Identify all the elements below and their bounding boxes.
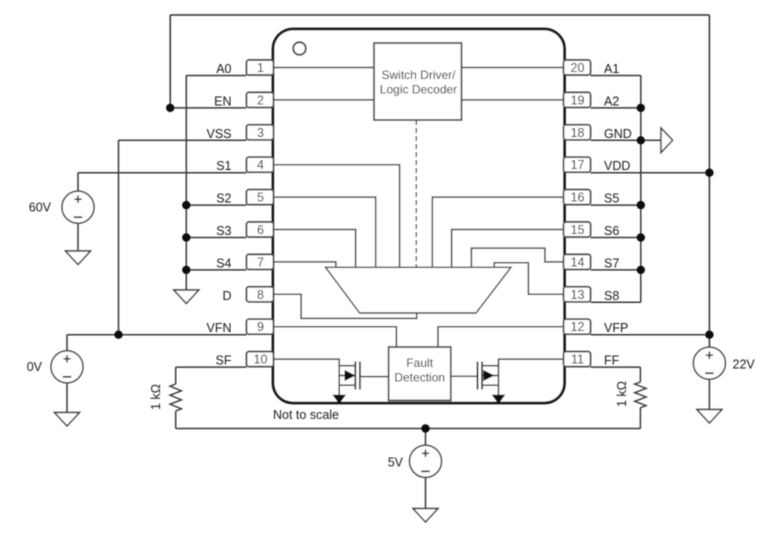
svg-text:Not to scale: Not to scale xyxy=(273,408,339,422)
svg-text:Logic Decoder: Logic Decoder xyxy=(380,83,457,97)
svg-text:1 kΩ: 1 kΩ xyxy=(149,384,163,410)
svg-text:Fault: Fault xyxy=(406,356,433,370)
svg-text:8: 8 xyxy=(257,288,264,302)
svg-text:0V: 0V xyxy=(27,360,43,374)
svg-text:SF: SF xyxy=(216,354,232,368)
svg-text:60V: 60V xyxy=(29,201,52,215)
svg-text:S4: S4 xyxy=(216,256,231,270)
svg-text:15: 15 xyxy=(571,223,585,237)
svg-text:5: 5 xyxy=(257,191,264,205)
svg-text:VFN: VFN xyxy=(207,321,232,335)
svg-text:S2: S2 xyxy=(216,192,231,206)
svg-text:1: 1 xyxy=(257,61,264,75)
svg-text:FF: FF xyxy=(604,354,620,368)
svg-text:GND: GND xyxy=(604,127,632,141)
svg-text:13: 13 xyxy=(571,288,585,302)
svg-text:S1: S1 xyxy=(216,159,231,173)
svg-text:S5: S5 xyxy=(604,192,619,206)
svg-text:17: 17 xyxy=(571,158,585,172)
svg-text:19: 19 xyxy=(571,93,585,107)
svg-text:EN: EN xyxy=(214,94,231,108)
svg-text:11: 11 xyxy=(571,353,584,367)
svg-text:3: 3 xyxy=(257,126,264,140)
svg-text:16: 16 xyxy=(571,191,585,205)
svg-text:1 kΩ: 1 kΩ xyxy=(615,381,629,407)
svg-text:20: 20 xyxy=(571,61,585,75)
svg-text:6: 6 xyxy=(257,223,264,237)
svg-text:A2: A2 xyxy=(604,94,619,108)
svg-text:S8: S8 xyxy=(604,289,619,303)
svg-text:5V: 5V xyxy=(388,456,404,470)
svg-text:18: 18 xyxy=(571,126,585,140)
svg-text:VSS: VSS xyxy=(206,127,231,141)
svg-text:VFP: VFP xyxy=(604,321,628,335)
svg-text:10: 10 xyxy=(254,353,268,367)
svg-text:7: 7 xyxy=(257,255,264,269)
svg-text:14: 14 xyxy=(571,255,585,269)
svg-text:S7: S7 xyxy=(604,256,619,270)
svg-text:S3: S3 xyxy=(216,224,231,238)
svg-text:2: 2 xyxy=(257,93,264,107)
svg-text:4: 4 xyxy=(257,158,264,172)
svg-text:S6: S6 xyxy=(604,224,619,238)
svg-text:VDD: VDD xyxy=(604,159,630,173)
svg-text:A0: A0 xyxy=(216,62,231,76)
svg-text:22V: 22V xyxy=(733,358,756,372)
svg-text:A1: A1 xyxy=(604,62,619,76)
svg-text:D: D xyxy=(222,289,231,303)
svg-text:Switch Driver/: Switch Driver/ xyxy=(381,68,456,82)
svg-text:9: 9 xyxy=(257,320,264,334)
svg-text:12: 12 xyxy=(571,320,585,334)
svg-text:Detection: Detection xyxy=(394,371,445,385)
